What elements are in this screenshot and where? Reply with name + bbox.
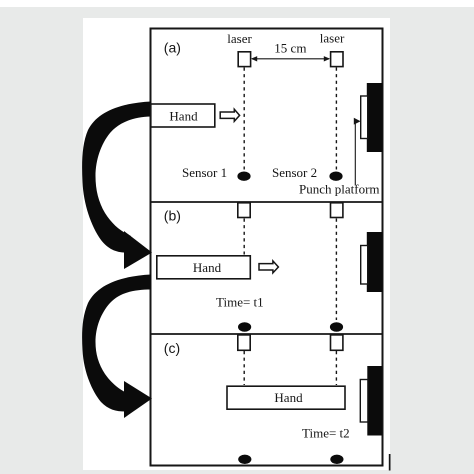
- svg-text:Sensor 2: Sensor 2: [272, 165, 317, 180]
- svg-text:15 cm: 15 cm: [274, 41, 306, 56]
- svg-text:Hand: Hand: [193, 260, 222, 275]
- svg-text:(c): (c): [164, 340, 180, 356]
- svg-text:laser: laser: [320, 30, 345, 45]
- svg-text:Hand: Hand: [274, 390, 303, 405]
- svg-text:Hand: Hand: [169, 108, 198, 123]
- svg-text:laser: laser: [227, 31, 252, 46]
- svg-text:Punch platform: Punch platform: [299, 182, 380, 197]
- svg-text:Time= t2: Time= t2: [302, 426, 350, 441]
- svg-text:Sensor 1: Sensor 1: [182, 165, 227, 180]
- svg-text:(b): (b): [164, 208, 181, 224]
- svg-text:Time= t1: Time= t1: [216, 295, 264, 310]
- svg-text:(a): (a): [164, 40, 181, 56]
